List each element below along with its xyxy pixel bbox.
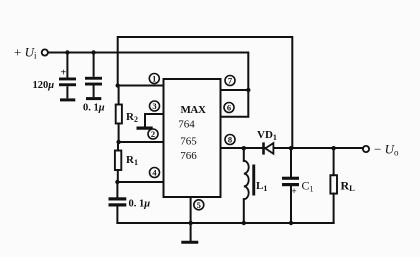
pin 7 (225, 76, 235, 86)
svg-text:MAX: MAX (180, 104, 206, 116)
svg-text:764: 764 (178, 119, 195, 131)
wire: RL bottom lead (333, 194, 335, 223)
wire: pin7 stub (221, 89, 249, 91)
resistor R2 (116, 105, 122, 124)
wire: RL top lead (333, 148, 335, 175)
wire: feedback top wire from node A down-left to pin1 stub, across top, down to output node (118, 37, 293, 148)
wire: L1 top lead (243, 148, 245, 161)
svg-text:766: 766 (180, 150, 197, 162)
node: output terminal -Uo (363, 146, 369, 152)
wire: pin4 stub (117, 181, 163, 183)
pin 8 (225, 135, 235, 145)
svg-text:1: 1 (152, 74, 156, 84)
wire: R1 bottom lead (117, 170, 119, 182)
wire: R1 top lead (117, 142, 119, 151)
capacitor C3 0.1u leads (116, 182, 118, 223)
pin 3 (150, 101, 160, 111)
wire: pin8 output line to terminal (221, 147, 363, 149)
wire: L1 bottom lead (243, 199, 245, 223)
svg-text:0. 1μ: 0. 1μ (129, 199, 151, 210)
wire: C1 leads (290, 148, 292, 223)
svg-text:6: 6 (227, 103, 231, 113)
svg-text:5: 5 (197, 200, 201, 210)
wire: 0.1u cap leads (93, 53, 95, 98)
wire: pin5 lead to ground (190, 197, 192, 241)
capacitor 0.1u input plates (85, 77, 102, 100)
pin 6 (224, 103, 234, 113)
wire: R2 bottom lead (118, 124, 120, 143)
resistor R1 (115, 151, 121, 171)
svg-text:+: + (292, 186, 297, 196)
wire: pin3 stub to termination bar (145, 114, 164, 127)
diode VD1 triangle (265, 143, 273, 154)
svg-text:+ Ui: + Ui (14, 45, 37, 61)
pin circled numbers (148, 74, 235, 210)
ground (183, 241, 197, 244)
capacitor C1 plates (282, 177, 299, 187)
svg-text:8: 8 (228, 135, 232, 145)
svg-text:765: 765 (180, 135, 197, 147)
svg-text:+: + (61, 68, 67, 79)
wire: pin1 stub (118, 85, 164, 87)
pin 2 (148, 129, 158, 139)
wire: pin2 stub (119, 141, 164, 143)
inductor L1 coil (244, 161, 249, 199)
wire: pin7-pin6 tie (221, 90, 249, 117)
pin 4 (150, 168, 160, 178)
wire: 120u cap leads (66, 53, 68, 99)
resistor RL (330, 175, 337, 193)
pin 5 (194, 200, 204, 210)
svg-text:0. 1μ: 0. 1μ (83, 103, 105, 114)
wire: bottom ground rail (117, 222, 333, 224)
svg-text:120μ: 120μ (33, 80, 55, 91)
capacitor C3 0.1u plates (109, 197, 127, 206)
svg-text:3: 3 (152, 101, 156, 111)
diode VD1 cathode bar (262, 142, 265, 154)
capacitor C120u plates (59, 78, 76, 102)
svg-text:2: 2 (151, 129, 155, 139)
wire: +Ui input rail to pin7 (48, 53, 248, 91)
inductor L1 core bar (252, 165, 255, 196)
op-amp U1: IC body MAX764/765/766 (164, 79, 221, 197)
wire: R2 top lead (118, 86, 120, 105)
ground: pin3 termination bar (138, 127, 151, 130)
node: input terminal +Ui (42, 49, 48, 55)
pin 1 (149, 74, 159, 84)
